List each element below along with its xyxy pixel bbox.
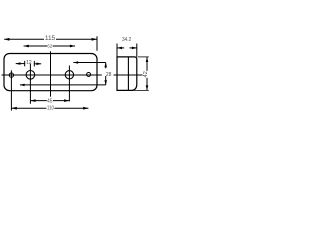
bottom outer dim line — [12, 107, 89, 109]
label 62 — [47, 43, 53, 48]
line B with left arrow — [20, 84, 106, 86]
dim 12 right arrow head — [37, 63, 42, 66]
svg-text:45: 45 — [47, 98, 53, 104]
label 42 rotated — [143, 71, 150, 78]
side view outline — [117, 57, 137, 91]
dim 42 up arrow — [146, 57, 149, 62]
dim 62 left arrow — [24, 45, 29, 48]
small hole left — [9, 73, 13, 77]
dim 42 down arrow — [146, 85, 149, 90]
svg-text:28: 28 — [106, 72, 112, 78]
dim 12 right tick — [33, 61, 35, 67]
label 45 — [47, 97, 53, 105]
dim 34.2 right extension — [136, 44, 138, 57]
bottom outer left arrow — [12, 107, 17, 110]
side view centre line — [114, 74, 143, 76]
dim 115 line — [4, 38, 97, 40]
big hole right — [65, 71, 73, 79]
svg-text:115: 115 — [45, 35, 56, 42]
dim 28 vertical line — [105, 63, 107, 69]
dim 115 left arrow — [4, 38, 9, 41]
dim 12 left arrow head — [16, 62, 21, 65]
bottom inner right arrow — [64, 99, 69, 102]
dim 28 down arrow — [104, 80, 107, 85]
dim 28 up arrow — [104, 63, 107, 68]
svg-text:12: 12 — [26, 60, 32, 66]
svg-text:110: 110 — [47, 106, 54, 112]
centre line horizontal — [2, 74, 102, 76]
label 110 — [46, 104, 54, 111]
small hole left extension line — [10, 70, 12, 110]
big hole left — [26, 71, 35, 80]
dim 42 top extension — [138, 56, 149, 58]
dim 12 left tick — [24, 61, 26, 67]
line A with left arrow — [73, 62, 105, 64]
dim 115 right arrow — [92, 38, 97, 41]
centre extension line vertical — [50, 51, 52, 97]
label 115 — [44, 34, 56, 42]
dim 34.2 right arrow — [132, 47, 137, 50]
bottom inner left arrow — [30, 99, 35, 102]
svg-text:42: 42 — [143, 71, 149, 77]
dim 115 right extension line — [96, 36, 98, 50]
dim 62 right arrow — [70, 45, 75, 48]
dim 34.2 right segment — [130, 47, 137, 49]
dim 42 bottom extension — [132, 89, 149, 91]
dim 62 line — [24, 45, 76, 47]
big hole right extension line — [68, 66, 70, 102]
front view outline — [4, 54, 97, 91]
line A arrow head — [73, 61, 78, 64]
dim 12 right arrow tail — [34, 63, 41, 65]
bottom inner dim line — [30, 100, 69, 102]
dim 34.2 left arrow — [117, 47, 122, 50]
bottom outer right arrow — [83, 107, 88, 110]
dim 34.2 left extension — [116, 44, 118, 57]
svg-text:62: 62 — [47, 44, 53, 49]
dim 42 vertical line — [146, 57, 148, 90]
small hole right — [87, 73, 91, 77]
svg-text:34.2: 34.2 — [122, 37, 131, 43]
side view internal vertical — [127, 57, 129, 91]
dim 12 left arrow tail — [16, 63, 25, 65]
line B arrow head — [20, 84, 25, 87]
dim 34.2 left segment — [117, 47, 124, 49]
big hole left extension line — [29, 63, 31, 103]
